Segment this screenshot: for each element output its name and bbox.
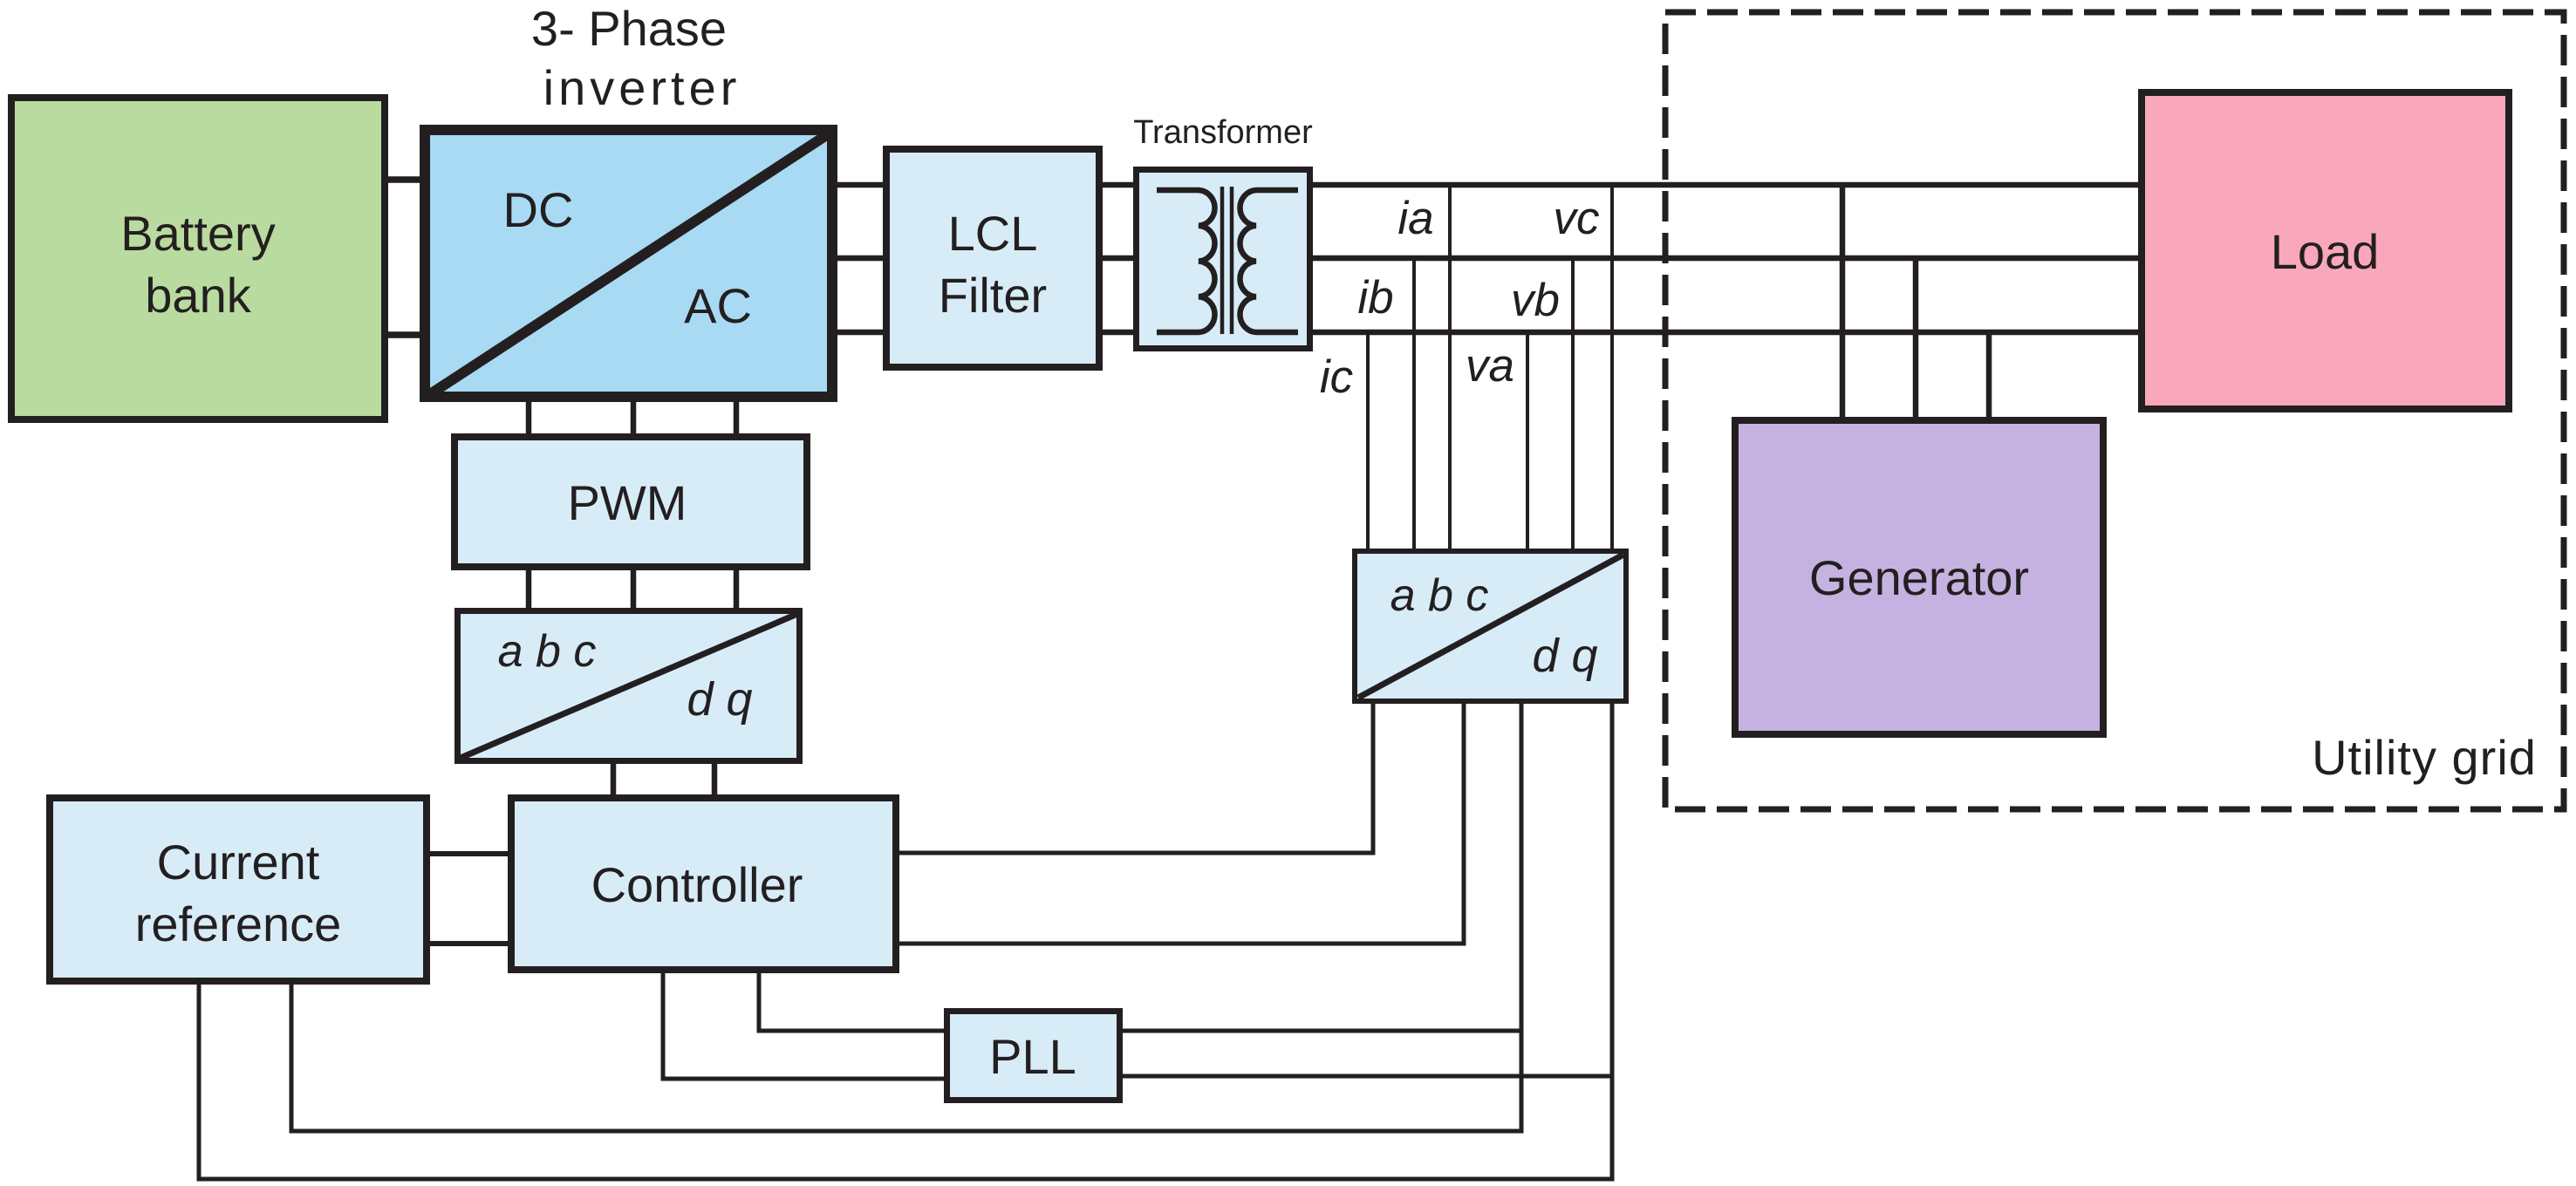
load box [2142, 92, 2509, 409]
tap ia from phase a [1448, 185, 1452, 549]
net controller bottom stub to PLL upper input [759, 971, 946, 1031]
wire PLL right upper to pin3 net [1121, 1029, 1521, 1033]
tap ic from phase c [1366, 332, 1370, 549]
wire inverter-LCL phase c [837, 330, 884, 336]
net right abc/dq pin4 via bottom bus to current reference [199, 703, 1612, 1179]
inverter diagonal [427, 133, 830, 396]
transformer box [1137, 170, 1310, 349]
stub inverter-PWM 2 [631, 400, 637, 435]
left abc/dq transform box [458, 611, 800, 761]
net controller out2 to right abc/dq pin2 [895, 703, 1464, 944]
svg-text:ib: ib [1357, 272, 1393, 324]
stub abc/dq-controller 2 [712, 762, 718, 796]
svg-text:bank: bank [145, 268, 251, 323]
PLL box [947, 1012, 1120, 1101]
wire PLL right lower to pin4 net [1121, 1074, 1612, 1079]
3-phase inverter box [425, 130, 832, 397]
wire battery-inverter DC top [386, 176, 422, 183]
svg-text:inverter: inverter [543, 60, 741, 115]
svg-text:va: va [1466, 340, 1514, 392]
svg-text:PWM: PWM [568, 475, 687, 530]
stub inverter-PWM 3 [734, 400, 740, 435]
stub PWM-abc/dq 2 [631, 569, 637, 610]
svg-text:Generator: Generator [1809, 550, 2029, 605]
svg-text:vb: vb [1511, 275, 1560, 326]
svg-text:Battery: Battery [120, 206, 275, 261]
tap ib from phase b [1412, 258, 1416, 549]
current reference box [50, 798, 427, 981]
wire LCL-transformer phase a [1102, 182, 1134, 188]
LCL filter box [886, 149, 1099, 367]
wire drop phase b to generator [1913, 258, 1919, 418]
svg-text:a b c: a b c [498, 626, 597, 677]
battery bank box [11, 98, 385, 419]
wire inverter-LCL phase a [837, 182, 884, 188]
wire current-reference to controller upper [428, 851, 509, 856]
stub PWM-abc/dq 3 [734, 569, 740, 610]
svg-text:Controller: Controller [591, 857, 803, 912]
wire LCL-transformer phase c [1102, 330, 1134, 336]
right abc/dq transform box [1355, 551, 1626, 701]
svg-text:AC: AC [684, 278, 752, 333]
wire transformer-load phase a [1312, 182, 2139, 188]
svg-text:DC: DC [503, 182, 574, 237]
svg-text:Filter: Filter [939, 268, 1047, 323]
svg-text:Transformer: Transformer [1133, 114, 1313, 151]
PWM box [454, 437, 807, 567]
svg-text:Current: Current [157, 835, 320, 889]
tap vb from phase b [1571, 258, 1575, 549]
svg-text:Utility grid: Utility grid [2312, 730, 2537, 785]
tap vc from phase a [1610, 185, 1614, 549]
transformer core [1220, 187, 1225, 334]
tap va from phase c [1526, 332, 1529, 549]
wire battery-inverter DC bottom [386, 331, 422, 338]
stub PWM-abc/dq 1 [526, 569, 532, 610]
stub inverter-PWM 1 [526, 400, 532, 435]
svg-text:a b c: a b c [1390, 570, 1489, 621]
net controller out1 to right abc/dq pin1 [895, 703, 1373, 853]
wire inverter-LCL phase b [837, 256, 884, 262]
utility grid dashed boundary [1665, 12, 2564, 809]
net controller bottom stub to PLL lower input [663, 971, 946, 1079]
svg-text:3- Phase: 3- Phase [531, 1, 727, 56]
svg-text:d q: d q [687, 673, 752, 726]
right abc/dq diagonal [1358, 555, 1623, 698]
stub abc/dq-controller 1 [611, 762, 617, 796]
controller box [511, 798, 896, 970]
wire drop phase c to generator [1986, 332, 1992, 418]
svg-text:PLL: PLL [989, 1029, 1076, 1084]
svg-text:Load: Load [2271, 224, 2380, 279]
svg-text:ia: ia [1397, 193, 1433, 244]
svg-text:LCL: LCL [948, 206, 1038, 261]
svg-text:vc: vc [1554, 193, 1600, 244]
wire LCL-transformer phase b [1102, 256, 1134, 262]
wire current-reference to controller lower [428, 941, 509, 946]
wire transformer-load phase c [1312, 330, 2139, 336]
transformer primary winding [1157, 190, 1215, 332]
svg-text:reference: reference [135, 896, 342, 951]
transformer secondary winding [1240, 190, 1298, 332]
wire transformer-load phase b [1312, 256, 2139, 262]
svg-text:d q: d q [1532, 630, 1597, 682]
wire drop phase a to generator [1840, 185, 1846, 418]
svg-text:ic: ic [1320, 351, 1353, 403]
left abc/dq diagonal [461, 614, 797, 758]
generator box [1735, 420, 2103, 734]
net right abc/dq pin3 via bottom bus to current reference [291, 703, 1521, 1131]
